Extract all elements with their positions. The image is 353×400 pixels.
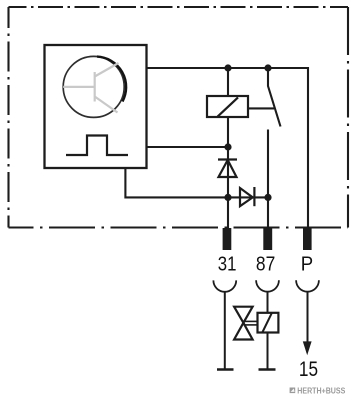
HERTH+BUSS logo <box>290 386 346 395</box>
junction node D2 right <box>264 194 271 201</box>
double link bowtie to lamp box <box>244 320 258 322</box>
wire: rail to relay coil <box>227 68 229 96</box>
wire: box bottom to node at y197.4 <box>125 168 228 197</box>
wire: coil bottom to terminal 31 line <box>227 117 229 228</box>
transistor Q1 base bar (gray) <box>94 72 96 102</box>
control unit box U1 <box>45 45 147 168</box>
relay housing dash-dot border top <box>9 6 349 8</box>
svg-text:87: 87 <box>256 252 275 274</box>
socket arc 87 <box>256 280 279 291</box>
indicator lamp E1 bowtie upper triangle <box>234 307 253 323</box>
terminal pin 31 <box>223 228 232 250</box>
wire: box to node at y147 <box>147 146 229 148</box>
transistor Q1 collector lead (gray) <box>95 63 119 77</box>
socket arc 31 <box>213 280 236 291</box>
lamp box E2 with diagonal <box>258 313 279 333</box>
junction node at rail/switch <box>264 64 271 71</box>
relay switch fixed contact to terminal 87 <box>267 130 269 229</box>
relay switch S1 arm <box>268 68 281 127</box>
wire: D2 link between nodes <box>228 196 268 198</box>
diode D2 cathode bar <box>253 187 255 206</box>
terminal pin P <box>303 228 312 250</box>
terminal pin 87 <box>263 228 272 250</box>
junction node coil bottom <box>224 143 231 150</box>
indicator lamp E1 bowtie lower triangle <box>234 323 253 340</box>
diode D1 triangle <box>219 160 237 177</box>
svg-text:HERTH+BUSS: HERTH+BUSS <box>297 386 346 395</box>
transistor Q1 emitter lead (gray) <box>95 97 118 113</box>
junction node D2 left <box>224 194 231 201</box>
relay housing dash-dot border left <box>7 7 9 228</box>
wire lamp to ground <box>267 333 269 370</box>
relay coil K1 <box>207 96 248 117</box>
wire 31 to ground <box>224 292 226 369</box>
svg-text:15: 15 <box>299 358 318 381</box>
junction node at rail/coil <box>224 64 231 71</box>
ground bar 87 <box>259 368 276 371</box>
wire: coil to switch link <box>248 107 274 109</box>
diode D1 (zener, vertical) cathode bar <box>218 158 237 160</box>
relay housing dash-dot border bottom <box>9 226 349 228</box>
svg-text:31: 31 <box>218 252 237 275</box>
pulse waveform symbol <box>66 136 128 156</box>
relay housing dash-dot border right <box>347 7 349 228</box>
transistor Q1 base lead (gray) <box>63 86 94 88</box>
wire P arrow shaft <box>307 292 309 342</box>
wire 87 to lamp <box>267 292 269 313</box>
svg-text:P: P <box>301 254 313 276</box>
arrowhead to 15 <box>303 341 312 355</box>
wire: supply rail from box to P line with corner <box>147 68 309 228</box>
transistor circle outline <box>63 56 124 117</box>
diode D2 (horizontal) triangle <box>240 188 253 206</box>
ground bar 31 <box>217 368 234 371</box>
socket arc P <box>296 280 319 291</box>
